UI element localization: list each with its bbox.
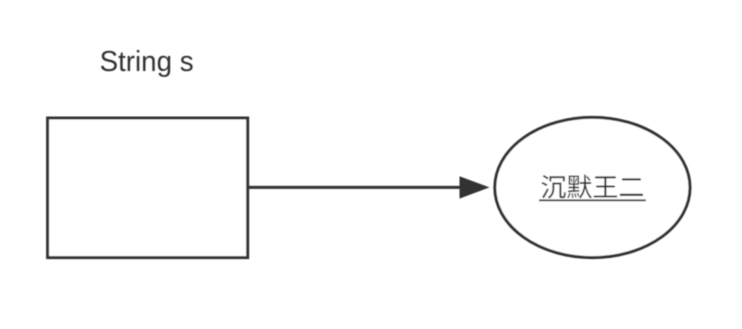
CJK glyph 二 (er) of label "沉默王二" [620,178,643,196]
svg-text:String s: String s [100,46,194,78]
arrowhead [460,176,490,198]
rectangle node (String s box) [48,118,248,258]
ellipse node (reference target) [495,117,690,257]
underline of label "沉默王二" [539,199,646,201]
wire: arrow shaft from rectangle to ellipse [249,186,463,189]
CJK glyph 沉 (chen) of label "沉默王二" [541,175,565,199]
CJK glyph 默 (mo) of label "沉默王二" [567,175,592,199]
CJK glyph 王 (wang) of label "沉默王二" [594,176,617,197]
